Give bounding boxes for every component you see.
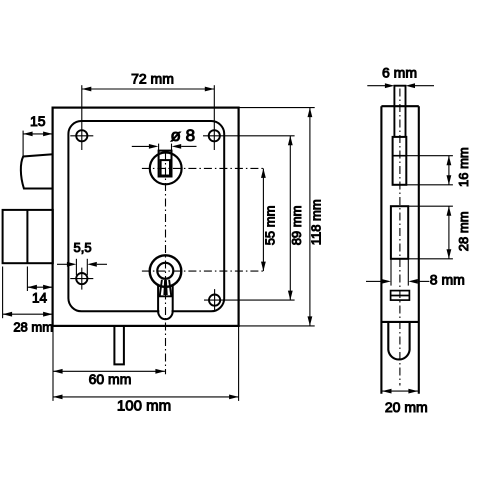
dimension 89 mm	[203, 136, 295, 300]
svg-text:28 mm: 28 mm	[456, 211, 471, 251]
key bit ward	[164, 281, 167, 295]
keyhole inner circle	[157, 263, 173, 279]
spindle hole extension lines	[159, 144, 172, 151]
side view case body	[381, 106, 418, 394]
svg-text:89 mm: 89 mm	[289, 206, 304, 246]
screw hole bottom-left	[70, 268, 93, 290]
dimension 100 mm	[53, 326, 239, 401]
dimension 28 mm (left)	[3, 267, 53, 319]
dimension 6 mm	[367, 83, 434, 88]
svg-text:5,5: 5,5	[74, 240, 92, 255]
svg-text:16 mm: 16 mm	[456, 147, 471, 187]
keyhole boss circle	[150, 255, 182, 287]
side view centerline	[399, 89, 401, 386]
screw hole bottom-right	[209, 289, 220, 311]
key slot 28mm	[391, 206, 408, 259]
svg-text:20 mm: 20 mm	[385, 399, 428, 415]
svg-text:15: 15	[30, 113, 46, 129]
spindle boss circle	[150, 153, 182, 185]
square spindle hole outer	[159, 151, 172, 177]
svg-text:14: 14	[32, 290, 48, 305]
svg-text:6 mm: 6 mm	[382, 64, 417, 80]
screw hole top-right	[209, 130, 220, 141]
svg-text:118 mm: 118 mm	[308, 199, 323, 245]
dimension 20 mm	[382, 389, 418, 394]
keyhole channel gap in face plate edge	[159, 309, 171, 314]
square spindle hole inner	[161, 160, 170, 175]
svg-text:72 mm: 72 mm	[131, 71, 174, 87]
bolt tab below plate	[114, 326, 124, 365]
svg-text:8 mm: 8 mm	[430, 272, 465, 288]
strike box divider	[26, 210, 28, 263]
dimension 72 mm	[82, 85, 215, 150]
svg-text:ø 8: ø 8	[171, 126, 196, 145]
dimension 15	[23, 131, 52, 156]
keyhole channel with rounded bottom	[158, 284, 173, 319]
dimension 55 mm	[261, 168, 266, 271]
latch bolt (left protrusion)	[21, 154, 53, 188]
dimension diameter 8	[132, 144, 197, 149]
dimension 28 mm (right)	[400, 206, 453, 259]
key guide cartridge	[391, 291, 410, 301]
dimension 118 mm	[239, 108, 315, 326]
svg-text:100 mm: 100 mm	[117, 398, 171, 415]
dimension 60 mm	[53, 369, 165, 374]
dimension 14	[27, 267, 52, 292]
keyhole skirt	[160, 280, 172, 297]
dimension 5,5	[57, 259, 107, 276]
follower slot	[393, 137, 407, 185]
strike box (lower left)	[3, 210, 53, 263]
svg-text:55 mm: 55 mm	[263, 206, 278, 246]
horizontal centerline keyhole	[142, 270, 264, 272]
follower slot divider	[393, 155, 407, 157]
lock case outer plate	[53, 108, 239, 326]
dimension 16 mm	[399, 156, 453, 185]
horizontal centerline spindle	[142, 167, 264, 169]
screw hole top-left	[70, 130, 93, 141]
vertical centerline front view	[165, 152, 167, 374]
face plate inner rounded rect	[68, 121, 224, 311]
dimension 8 mm	[366, 259, 429, 286]
spindle stem	[394, 86, 407, 137]
svg-text:60 mm: 60 mm	[89, 371, 132, 387]
svg-text:28 mm: 28 mm	[13, 319, 53, 334]
key cylinder with rounded bottom	[388, 322, 409, 360]
